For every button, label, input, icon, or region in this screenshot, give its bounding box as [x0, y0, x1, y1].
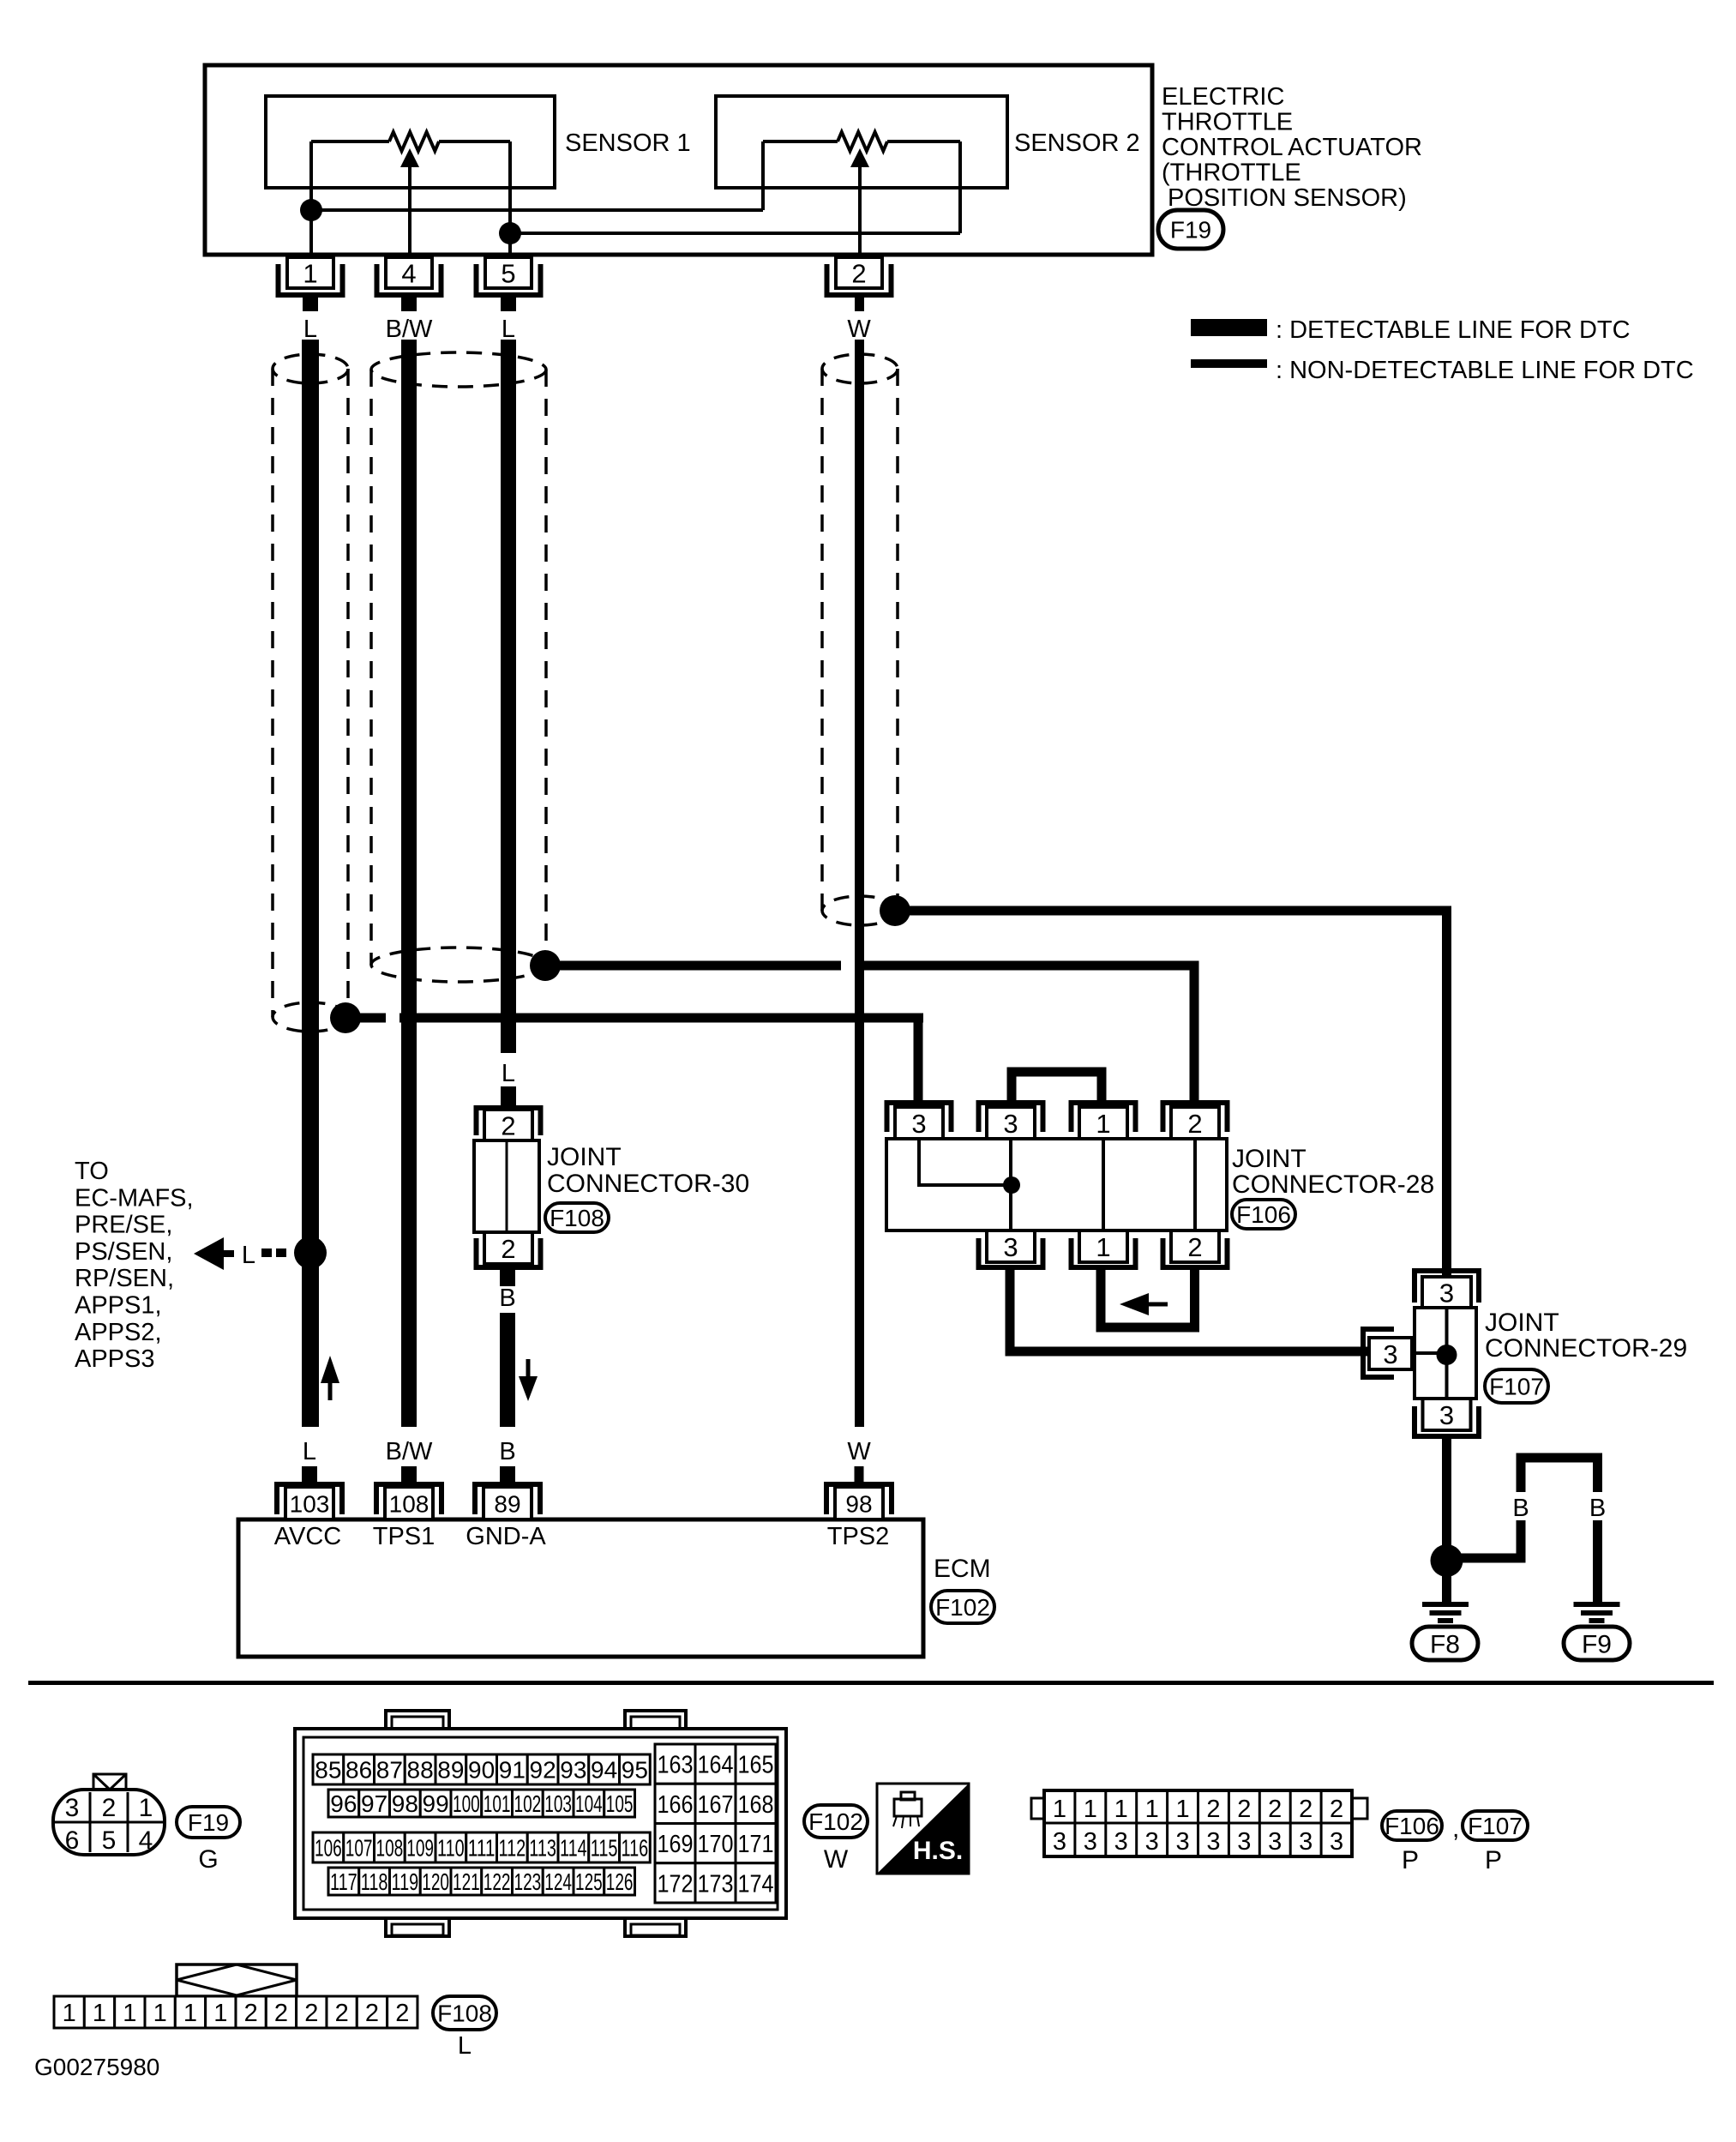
svg-text:170: 170 [698, 1831, 734, 1858]
svg-text:106: 106 [315, 1835, 342, 1862]
svg-text:120: 120 [422, 1868, 449, 1895]
svg-text:G: G [198, 1845, 218, 1874]
svg-text:H.S.: H.S. [913, 1837, 963, 1865]
svg-text:PS/SEN,: PS/SEN, [75, 1238, 172, 1266]
svg-text:96: 96 [330, 1790, 357, 1817]
svg-text:W: W [847, 1438, 871, 1465]
svg-text:F19: F19 [188, 1809, 229, 1836]
svg-text:: NON-DETECTABLE LINE FOR DTC: : NON-DETECTABLE LINE FOR DTC [1276, 357, 1694, 384]
svg-text:3: 3 [911, 1109, 926, 1139]
svg-text:2: 2 [1237, 1796, 1251, 1823]
svg-text:2: 2 [851, 258, 866, 288]
svg-text:ELECTRIC: ELECTRIC [1162, 83, 1284, 111]
svg-text:2: 2 [395, 2000, 409, 2027]
svg-text:103: 103 [544, 1790, 572, 1817]
svg-text:108: 108 [389, 1490, 429, 1517]
svg-text:TO: TO [75, 1158, 109, 1185]
svg-text:3: 3 [1330, 1828, 1343, 1856]
svg-text:105: 105 [606, 1790, 634, 1817]
svg-text:3: 3 [1003, 1232, 1018, 1262]
svg-text:P: P [1485, 1846, 1502, 1874]
svg-text:AVCC: AVCC [274, 1523, 341, 1550]
svg-text:CONTROL ACTUATOR: CONTROL ACTUATOR [1162, 134, 1422, 161]
svg-text:2: 2 [335, 2000, 349, 2027]
svg-text:3: 3 [1439, 1400, 1454, 1430]
svg-text:99: 99 [423, 1790, 449, 1817]
svg-text:3: 3 [1439, 1278, 1454, 1308]
svg-text:F107: F107 [1489, 1374, 1544, 1400]
svg-text:91: 91 [499, 1757, 526, 1784]
svg-text:102: 102 [514, 1790, 542, 1817]
svg-text:B/W: B/W [386, 316, 433, 343]
svg-text:JOINT: JOINT [1232, 1145, 1307, 1173]
svg-text:F102: F102 [808, 1808, 863, 1835]
svg-text:119: 119 [392, 1868, 419, 1895]
svg-text:172: 172 [658, 1870, 694, 1898]
svg-text:1: 1 [1084, 1796, 1097, 1823]
svg-text:PRE/SE,: PRE/SE, [75, 1212, 172, 1239]
svg-text:5: 5 [102, 1826, 117, 1855]
svg-text:169: 169 [658, 1831, 694, 1858]
svg-text:121: 121 [453, 1868, 480, 1895]
svg-text:122: 122 [484, 1868, 511, 1895]
svg-text:EC-MAFS,: EC-MAFS, [75, 1184, 194, 1212]
svg-text:1: 1 [93, 2000, 106, 2027]
svg-text:112: 112 [499, 1835, 526, 1862]
svg-text:126: 126 [606, 1868, 634, 1895]
svg-text:2: 2 [274, 2000, 288, 2027]
svg-text:87: 87 [376, 1757, 403, 1784]
svg-text:THROTTLE: THROTTLE [1162, 109, 1293, 136]
svg-text:1: 1 [1145, 1796, 1159, 1823]
svg-text:SENSOR 2: SENSOR 2 [1014, 129, 1140, 157]
svg-text:(THROTTLE: (THROTTLE [1162, 159, 1301, 187]
svg-text:2: 2 [1206, 1796, 1220, 1823]
svg-text:F107: F107 [1468, 1813, 1523, 1839]
svg-text:SENSOR 1: SENSOR 1 [565, 129, 691, 157]
svg-text:L: L [502, 316, 515, 343]
svg-text:1: 1 [303, 258, 317, 288]
svg-text:1: 1 [63, 2000, 76, 2027]
svg-text:2: 2 [501, 1234, 515, 1264]
svg-text:F108: F108 [550, 1205, 604, 1231]
svg-text:171: 171 [738, 1831, 774, 1858]
svg-text:116: 116 [622, 1835, 649, 1862]
svg-text:W: W [847, 316, 871, 343]
svg-text:B: B [1589, 1495, 1606, 1522]
svg-text:F9: F9 [1582, 1630, 1612, 1658]
svg-text:L: L [242, 1242, 255, 1269]
svg-text:94: 94 [591, 1757, 617, 1784]
svg-text:2: 2 [1268, 1796, 1282, 1823]
svg-text:166: 166 [658, 1791, 694, 1819]
svg-text:,: , [1452, 1814, 1459, 1843]
svg-text:103: 103 [290, 1490, 330, 1517]
svg-text:B: B [499, 1438, 515, 1465]
svg-text:TPS1: TPS1 [373, 1523, 436, 1550]
svg-text:101: 101 [484, 1790, 511, 1817]
svg-text:1: 1 [1096, 1232, 1110, 1262]
svg-text:F108: F108 [437, 2001, 492, 2027]
svg-text:123: 123 [514, 1868, 542, 1895]
svg-text:6: 6 [65, 1826, 80, 1855]
svg-text:APPS3: APPS3 [75, 1345, 155, 1373]
svg-text:98: 98 [392, 1790, 418, 1817]
svg-text:1: 1 [183, 2000, 197, 2027]
svg-text:P: P [1402, 1846, 1419, 1874]
svg-text:3: 3 [1206, 1828, 1220, 1856]
svg-text:1: 1 [153, 2000, 167, 2027]
svg-text:APPS1,: APPS1, [75, 1292, 162, 1320]
svg-text:B/W: B/W [386, 1438, 433, 1465]
svg-text:3: 3 [1383, 1339, 1397, 1369]
svg-text:APPS2,: APPS2, [75, 1319, 162, 1346]
svg-text:118: 118 [361, 1868, 388, 1895]
svg-text:2: 2 [1299, 1796, 1313, 1823]
svg-text:107: 107 [345, 1835, 373, 1862]
svg-text:163: 163 [658, 1752, 694, 1779]
svg-text:2: 2 [304, 2000, 318, 2027]
svg-text:173: 173 [698, 1870, 734, 1898]
svg-text:5: 5 [501, 258, 515, 288]
svg-text:CONNECTOR-29: CONNECTOR-29 [1485, 1334, 1687, 1363]
svg-text:117: 117 [330, 1868, 357, 1895]
svg-text:3: 3 [1268, 1828, 1282, 1856]
svg-text:1: 1 [139, 1794, 153, 1822]
svg-text:JOINT: JOINT [547, 1143, 622, 1171]
svg-text:86: 86 [345, 1757, 372, 1784]
svg-text:TPS2: TPS2 [827, 1523, 890, 1550]
svg-text:2: 2 [1187, 1232, 1202, 1262]
svg-text:CONNECTOR-28: CONNECTOR-28 [1232, 1170, 1434, 1199]
svg-text:3: 3 [1084, 1828, 1097, 1856]
svg-text:1: 1 [1175, 1796, 1189, 1823]
svg-text:JOINT: JOINT [1485, 1309, 1559, 1337]
svg-text:168: 168 [738, 1791, 774, 1819]
svg-text:B: B [499, 1285, 515, 1312]
svg-text:L: L [458, 2032, 472, 2060]
svg-text:3: 3 [1114, 1828, 1128, 1856]
svg-text:1: 1 [123, 2000, 136, 2027]
svg-text:1: 1 [1096, 1109, 1110, 1139]
svg-text:3: 3 [1053, 1828, 1066, 1856]
svg-text:88: 88 [407, 1757, 434, 1784]
svg-text:114: 114 [560, 1835, 587, 1862]
svg-text:165: 165 [738, 1752, 774, 1779]
svg-text:89: 89 [494, 1490, 520, 1517]
svg-text:93: 93 [560, 1757, 586, 1784]
svg-text:113: 113 [529, 1835, 556, 1862]
svg-text:2: 2 [1330, 1796, 1343, 1823]
svg-text:F102: F102 [935, 1594, 990, 1621]
svg-text:ECM: ECM [934, 1555, 991, 1583]
svg-text:104: 104 [575, 1790, 603, 1817]
svg-text:115: 115 [591, 1835, 618, 1862]
svg-text:1: 1 [1114, 1796, 1128, 1823]
svg-text:4: 4 [139, 1826, 153, 1855]
svg-text:3: 3 [1003, 1109, 1018, 1139]
svg-text:164: 164 [698, 1752, 734, 1779]
svg-text:GND-A: GND-A [466, 1523, 546, 1550]
svg-text:POSITION SENSOR): POSITION SENSOR) [1168, 184, 1407, 212]
svg-text:F8: F8 [1430, 1630, 1460, 1658]
svg-text:G00275980: G00275980 [34, 2054, 159, 2080]
svg-text:2: 2 [501, 1110, 515, 1140]
svg-text:109: 109 [406, 1835, 434, 1862]
svg-text:85: 85 [315, 1757, 341, 1784]
svg-text:2: 2 [244, 2000, 258, 2027]
svg-text:89: 89 [437, 1757, 464, 1784]
svg-text:100: 100 [453, 1790, 480, 1817]
svg-text:125: 125 [575, 1868, 603, 1895]
svg-text:: DETECTABLE LINE FOR DTC: : DETECTABLE LINE FOR DTC [1276, 316, 1631, 344]
svg-text:97: 97 [361, 1790, 387, 1817]
svg-text:110: 110 [437, 1835, 465, 1862]
svg-text:3: 3 [65, 1794, 80, 1822]
svg-text:1: 1 [213, 2000, 227, 2027]
svg-text:111: 111 [468, 1835, 496, 1862]
svg-text:L: L [303, 316, 317, 343]
svg-text:2: 2 [102, 1794, 117, 1822]
svg-text:RP/SEN,: RP/SEN, [75, 1265, 174, 1292]
svg-text:3: 3 [1175, 1828, 1189, 1856]
svg-text:92: 92 [530, 1757, 556, 1784]
svg-text:4: 4 [401, 258, 416, 288]
svg-text:1: 1 [1053, 1796, 1066, 1823]
svg-text:3: 3 [1145, 1828, 1159, 1856]
svg-text:95: 95 [622, 1757, 648, 1784]
svg-text:2: 2 [365, 2000, 379, 2027]
svg-text:W: W [824, 1845, 849, 1874]
svg-text:90: 90 [468, 1757, 495, 1784]
svg-text:3: 3 [1299, 1828, 1313, 1856]
svg-text:98: 98 [845, 1490, 872, 1517]
svg-text:2: 2 [1187, 1109, 1202, 1139]
svg-text:F106: F106 [1236, 1201, 1291, 1228]
svg-text:F19: F19 [1170, 217, 1211, 244]
svg-text:124: 124 [544, 1868, 572, 1895]
svg-text:174: 174 [738, 1870, 774, 1898]
svg-text:CONNECTOR-30: CONNECTOR-30 [547, 1170, 749, 1198]
svg-text:B: B [1512, 1495, 1529, 1522]
svg-text:F106: F106 [1385, 1813, 1439, 1839]
svg-text:L: L [502, 1060, 515, 1087]
svg-text:108: 108 [376, 1835, 404, 1862]
svg-text:L: L [303, 1438, 316, 1465]
svg-text:3: 3 [1237, 1828, 1251, 1856]
svg-text:167: 167 [698, 1791, 734, 1819]
